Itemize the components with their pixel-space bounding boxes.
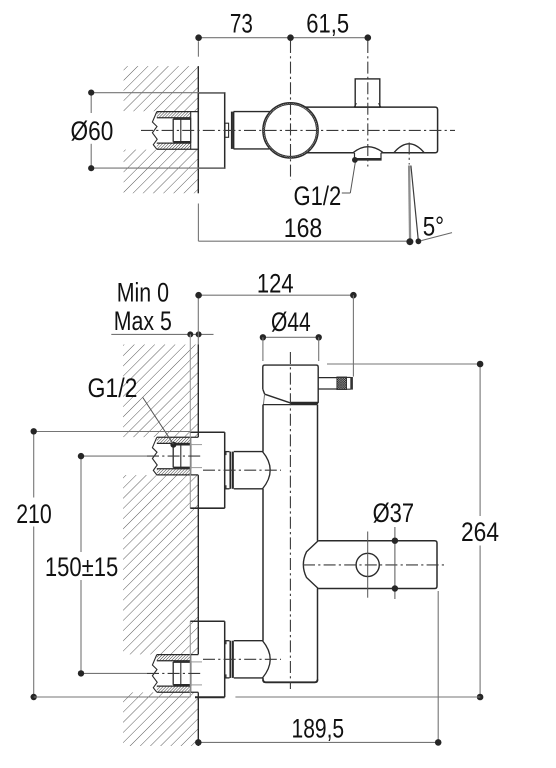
top view: union sleeve to knob [234, 111, 271, 113]
svg-text:124: 124 [257, 269, 294, 299]
svg-text:5°: 5° [423, 211, 444, 241]
dimension 210 [16, 428, 190, 700]
top view: knob vertical centerline [290, 41, 292, 180]
svg-text:Ø37: Ø37 [373, 498, 415, 528]
front view: shower hose nipple [318, 377, 353, 390]
top view: shower outlet port (top square) [355, 79, 380, 107]
label G1/2 (top view) [294, 157, 358, 211]
dimension O37 [368, 498, 414, 599]
front view: lower union axis [203, 658, 281, 660]
front view: upper S-union sleeve and nut [225, 452, 271, 489]
top view: stem flat tab [225, 123, 229, 137]
front view: diverter arm [303, 541, 437, 589]
svg-text:168: 168 [284, 213, 322, 243]
front view: lower in-wall supply pipe [152, 655, 202, 693]
svg-text:210: 210 [16, 499, 52, 529]
top view: angled outlet centerline [408, 143, 410, 165]
front view: control knob (lever head) [263, 365, 318, 405]
svg-text:150±15: 150±15 [45, 552, 118, 582]
svg-text:Ø44: Ø44 [271, 307, 311, 337]
top view: wall face line [197, 66, 199, 111]
svg-text:G1/2: G1/2 [88, 373, 138, 403]
bottom extension line (shared 210/264) [34, 696, 191, 698]
front view: arm centerline [303, 564, 446, 566]
front view: upper in-wall supply pipe [152, 437, 202, 475]
svg-text:189,5: 189,5 [292, 713, 345, 743]
dimension 5 degrees [406, 211, 452, 245]
front view: upper escutcheon plate [190, 432, 224, 508]
top view: horizontal centerline [141, 129, 455, 131]
dimension 150 +-15 [45, 453, 118, 677]
top view: control knob (knurled circle) [263, 103, 319, 159]
front view: upper pipe axis [81, 455, 147, 457]
front view: diverter knob circle [356, 553, 379, 576]
dimension 264 [327, 361, 499, 701]
front view: column body [263, 405, 318, 683]
top view: 5-degree outlet axis (thick gray) [409, 166, 410, 242]
top view: bottom port G1/2 [354, 153, 356, 159]
dimension 73 / 61,5 [195, 9, 371, 57]
svg-text:Min 0: Min 0 [117, 277, 169, 307]
top view: wall section (hatched) [124, 66, 199, 193]
front view: lower pipe axis [81, 672, 147, 674]
dimension 124 [195, 269, 356, 377]
front view: wall section (hatched) [123, 345, 198, 747]
top view: bottom port fillet arc [353, 147, 383, 153]
top view: angled outlet intersection arc [394, 144, 425, 153]
svg-text:264: 264 [461, 517, 499, 547]
top view: escutcheon plate (O60) [198, 93, 224, 168]
label G1/2 (front view) [88, 373, 174, 444]
labels Min 0 / Max 5 [111, 277, 213, 432]
front view: lower escutcheon plate [190, 621, 224, 697]
dimension 168 [198, 204, 410, 244]
top view: outlet port centerline [367, 41, 369, 167]
front view: column centerline [289, 352, 291, 689]
top view: mixer body tube [300, 107, 438, 153]
svg-text:73: 73 [230, 9, 253, 39]
front view: upper union axis [203, 469, 281, 471]
top view: in-wall supply pipe with union nut [152, 112, 198, 150]
front view: wall face line [197, 345, 199, 438]
svg-text:61,5: 61,5 [306, 9, 349, 39]
dimension O60 [71, 90, 225, 172]
svg-text:Ø60: Ø60 [71, 116, 114, 146]
svg-text:G1/2: G1/2 [294, 181, 342, 211]
dimension 189,5 [195, 591, 442, 746]
top view: union nut (thick bars) [231, 112, 233, 149]
dimension O44 [260, 307, 322, 361]
front view: lower S-union sleeve and nut [225, 641, 271, 678]
top view: 5-degree tilted line [411, 166, 418, 241]
svg-text:Max 5: Max 5 [114, 306, 172, 336]
